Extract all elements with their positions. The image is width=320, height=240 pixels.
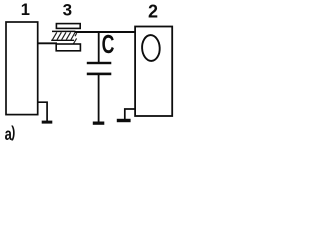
ground stub from block 2 [125, 109, 135, 119]
capacitor C top lead [98, 32, 100, 63]
ground stub from block 1 [37, 102, 47, 121]
svg-text:1: 1 [21, 1, 30, 19]
wire block1 to crystal [37, 42, 57, 44]
capacitor C plate 1 [87, 62, 112, 64]
main wire crystal to block 2 [75, 31, 136, 33]
indicator ellipse inside block 2 [141, 35, 160, 62]
svg-text:C: C [102, 30, 115, 59]
crystal Q top electrode plate [56, 24, 80, 29]
block 2 (indicator box) [135, 27, 172, 117]
svg-text:3: 3 [63, 0, 72, 19]
ground bar under capacitor [93, 122, 105, 125]
block 1 (generator box) [6, 22, 38, 115]
ground bar under block 2 [117, 119, 131, 122]
crystal Q bottom electrode plate [56, 44, 80, 51]
svg-text:2: 2 [148, 2, 158, 22]
ground bar under block 1 [42, 121, 53, 124]
crystal Q piezo element (hatched) [51, 31, 76, 43]
capacitor C plate 2 [87, 73, 112, 76]
capacitor C bottom lead [98, 75, 100, 122]
svg-text:): ) [11, 123, 15, 141]
